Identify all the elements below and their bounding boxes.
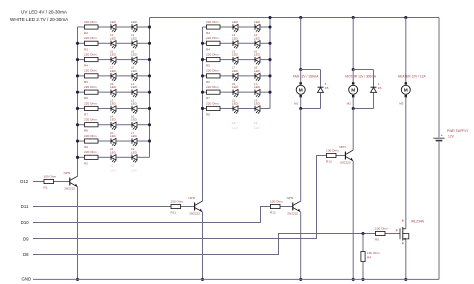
LED L25 <box>232 73 234 78</box>
wire <box>116 140 132 142</box>
node fan bottom <box>299 107 302 110</box>
wire <box>137 42 150 44</box>
svg-text:LED: LED <box>131 134 138 138</box>
svg-text:LED: LED <box>232 53 239 57</box>
svg-text:100 Ohm: 100 Ohm <box>326 148 339 152</box>
svg-text:LED: LED <box>254 126 261 130</box>
wire fan to Q3 collector <box>300 109 302 202</box>
svg-text:LED: LED <box>232 126 239 130</box>
svg-text:GND: GND <box>22 276 32 281</box>
resistor R7 <box>78 107 85 109</box>
wire <box>238 26 255 28</box>
svg-text:LED: LED <box>131 118 138 122</box>
wire MOSFET source to GND <box>405 239 407 280</box>
junction <box>352 278 355 281</box>
LED L5 <box>110 57 112 62</box>
resistor R11 <box>33 206 171 208</box>
resistor R5 <box>78 75 85 77</box>
wire <box>352 70 354 83</box>
svg-text:220 Ohm: 220 Ohm <box>84 20 97 24</box>
svg-text:LED: LED <box>110 69 117 73</box>
junction <box>148 74 151 77</box>
svg-text:LED: LED <box>254 85 261 89</box>
faint labels under block 1 <box>110 164 135 168</box>
svg-text:D12: D12 <box>20 179 28 184</box>
LED L26 <box>254 73 256 78</box>
resistor R1 <box>33 181 44 183</box>
junction <box>76 156 79 159</box>
junction <box>148 58 151 61</box>
wire <box>260 91 270 93</box>
svg-text:LED: LED <box>254 36 261 40</box>
svg-text:2N2222: 2N2222 <box>64 186 75 190</box>
junction <box>76 107 79 110</box>
junction <box>201 74 204 77</box>
svg-text:R2: R2 <box>84 161 88 165</box>
wire D8 to gate <box>33 234 363 255</box>
LED L24 <box>254 57 256 62</box>
LED L1 <box>110 24 112 29</box>
svg-text:LED: LED <box>110 118 117 122</box>
wire GND bus <box>33 278 439 280</box>
resistor R13 <box>203 59 207 61</box>
resistor R13 <box>317 155 327 157</box>
LED L22 <box>254 41 256 46</box>
svg-text:220 Ohm: 220 Ohm <box>84 150 97 154</box>
junction <box>268 74 271 77</box>
junction <box>76 139 79 142</box>
wire <box>116 26 132 28</box>
svg-text:LED: LED <box>110 101 117 105</box>
LED L2 <box>131 24 133 29</box>
resistor R14 <box>203 75 207 77</box>
svg-text:220 Ohm: 220 Ohm <box>84 118 97 122</box>
wire <box>238 59 255 61</box>
svg-text:R13: R13 <box>326 160 332 164</box>
wire <box>260 75 270 77</box>
junction <box>201 278 204 281</box>
junction <box>148 123 151 126</box>
wire <box>116 75 132 77</box>
svg-text:L1: L1 <box>131 164 135 168</box>
junction <box>76 42 79 45</box>
LED L15 <box>110 138 112 143</box>
node motor bottom <box>352 107 355 110</box>
svg-text:M: M <box>299 88 303 94</box>
transistor Q1 2N2222 <box>69 178 71 186</box>
wire Q1 emitter to GND <box>77 187 79 280</box>
LED L27 <box>232 89 234 94</box>
wire <box>116 156 132 158</box>
LED L12 <box>131 106 133 111</box>
wire <box>137 156 150 158</box>
svg-text:R11: R11 <box>171 211 177 215</box>
junction <box>76 278 79 281</box>
wire block2 left column <box>202 27 204 201</box>
wire <box>116 107 132 109</box>
svg-text:L2: L2 <box>232 121 236 125</box>
resistor R5 gate <box>365 233 376 235</box>
svg-text:LED: LED <box>110 20 117 24</box>
resistor R6 <box>78 91 85 93</box>
svg-text:R12: R12 <box>270 211 276 215</box>
wire <box>137 140 150 142</box>
svg-text:220 Ohm: 220 Ohm <box>206 101 219 105</box>
svg-text:NPN: NPN <box>287 196 294 200</box>
svg-text:R8: R8 <box>206 112 210 116</box>
wire <box>238 91 255 93</box>
resistor R11 <box>203 26 207 28</box>
svg-text:M: M <box>351 88 355 94</box>
LED L28 <box>254 89 256 94</box>
LED L19 <box>232 24 234 29</box>
svg-text:LED: LED <box>232 85 239 89</box>
junction <box>201 58 204 61</box>
transistor Q4 2N2222 <box>344 152 346 160</box>
svg-text:NPN: NPN <box>64 171 71 175</box>
wire <box>238 42 255 44</box>
svg-text:R9: R9 <box>84 145 88 149</box>
junction <box>201 91 204 94</box>
svg-text:220 Ohm: 220 Ohm <box>84 52 97 56</box>
junction gate node <box>361 232 364 235</box>
resistor R12 <box>262 206 271 208</box>
svg-text:R7: R7 <box>84 112 88 116</box>
LED L4 <box>131 41 133 46</box>
wire <box>260 42 270 44</box>
svg-text:R4: R4 <box>206 47 210 51</box>
svg-text:R6: R6 <box>84 96 88 100</box>
svg-text:220 Ohm: 220 Ohm <box>206 69 219 73</box>
svg-text:LED: LED <box>254 69 261 73</box>
svg-text:220 Ohm: 220 Ohm <box>84 101 97 105</box>
svg-text:100 Ohm: 100 Ohm <box>44 174 57 178</box>
svg-text:PWR SUPPLY: PWR SUPPLY <box>447 129 469 133</box>
svg-text:LED: LED <box>254 53 261 57</box>
wire D9 <box>33 156 317 239</box>
wire <box>116 91 132 93</box>
wire block2 right column <box>269 18 271 109</box>
junction <box>76 58 79 61</box>
transistor Q2 2N2222 <box>194 203 196 211</box>
resistor R8 <box>78 124 85 126</box>
junction <box>148 139 151 142</box>
svg-text:LED: LED <box>110 150 117 154</box>
LED L18 <box>131 155 133 160</box>
svg-text:12V: 12V <box>448 134 455 138</box>
svg-text:M1: M1 <box>294 101 298 105</box>
resistor R10 <box>78 156 85 158</box>
junction <box>201 42 204 45</box>
svg-text:2N2222: 2N2222 <box>189 211 200 215</box>
wire <box>116 124 132 126</box>
svg-text:LED: LED <box>110 168 117 172</box>
LED L3 <box>110 41 112 46</box>
junction <box>148 91 151 94</box>
svg-text:LED: LED <box>110 85 117 89</box>
svg-text:100 Ohm: 100 Ohm <box>375 226 388 230</box>
wire block1 right column <box>149 18 151 158</box>
junction <box>361 278 364 281</box>
resistor R16 <box>203 107 207 109</box>
LED L17 <box>110 155 112 160</box>
resistor R2 <box>78 26 85 28</box>
wire <box>238 107 255 109</box>
resistor R3 <box>78 42 85 44</box>
wire <box>116 59 132 61</box>
LED L10 <box>131 89 133 94</box>
resistor R12 <box>203 42 207 44</box>
svg-text:HEATER 12V / 12A: HEATER 12V / 12A <box>398 75 426 79</box>
wire right supply column <box>438 18 440 138</box>
wire <box>238 75 255 77</box>
svg-text:LED: LED <box>131 168 138 172</box>
svg-text:220 Ohm: 220 Ohm <box>206 20 219 24</box>
svg-text:LED: LED <box>110 36 117 40</box>
motor HEATER M3 <box>405 82 407 84</box>
junction top bus <box>404 16 407 19</box>
wire <box>137 107 150 109</box>
svg-text:L2: L2 <box>254 121 258 125</box>
svg-text:LED: LED <box>131 36 138 40</box>
junction <box>268 91 271 94</box>
svg-text:LED: LED <box>131 20 138 24</box>
wire <box>137 124 150 126</box>
junction <box>268 42 271 45</box>
junction <box>201 107 204 110</box>
wire Q2 emitter to GND <box>202 212 204 280</box>
LED L9 <box>110 89 112 94</box>
svg-text:2N2222: 2N2222 <box>340 160 351 164</box>
svg-text:R7: R7 <box>206 96 210 100</box>
wire <box>137 75 150 77</box>
svg-text:2N2222: 2N2222 <box>287 211 298 215</box>
svg-text:M2: M2 <box>347 101 351 105</box>
wire heater to MOSFET drain <box>405 97 407 229</box>
svg-text:LED: LED <box>232 101 239 105</box>
svg-text:LED: LED <box>131 69 138 73</box>
wire block1 left column <box>77 27 79 176</box>
wire <box>260 26 270 28</box>
wire +12V top bus <box>150 17 440 19</box>
svg-text:10k Ohm: 10k Ohm <box>367 251 380 255</box>
svg-text:D6: D6 <box>378 86 382 90</box>
wire <box>137 59 150 61</box>
LED L11 <box>110 106 112 111</box>
wire <box>137 26 150 28</box>
resistor R4 10k pulldown <box>362 234 364 252</box>
node motor top <box>352 68 355 71</box>
battery PWR SUPPLY <box>433 137 444 139</box>
svg-text:WHITE LED 2.7V / 20-30mA: WHITE LED 2.7V / 20-30mA <box>10 17 69 22</box>
wire motor to Q4 collector <box>352 109 354 151</box>
LED L7 <box>110 73 112 78</box>
junction <box>76 74 79 77</box>
junction top bus <box>299 16 302 19</box>
svg-text:M3: M3 <box>399 101 403 105</box>
svg-text:220 Ohm: 220 Ohm <box>84 36 97 40</box>
LED L16 <box>131 138 133 143</box>
svg-text:LED: LED <box>232 36 239 40</box>
svg-text:220 Ohm: 220 Ohm <box>84 69 97 73</box>
junction <box>268 25 271 28</box>
svg-text:D5: D5 <box>325 86 329 90</box>
svg-text:LED: LED <box>254 101 261 105</box>
svg-text:M: M <box>404 88 408 94</box>
transistor Q3 2N2222 <box>292 203 294 211</box>
svg-text:R3: R3 <box>206 31 210 35</box>
node fan top <box>299 68 302 71</box>
faint labels under block 2 <box>232 121 258 125</box>
junction top bus <box>352 16 355 19</box>
svg-text:D11: D11 <box>21 204 29 209</box>
wire Q3 emitter to GND <box>300 212 302 279</box>
svg-text:D10: D10 <box>21 220 29 225</box>
LED L23 <box>232 57 234 62</box>
svg-text:L1: L1 <box>110 164 114 168</box>
svg-text:R4: R4 <box>367 256 371 260</box>
svg-text:LED: LED <box>110 53 117 57</box>
svg-text:220 Ohm: 220 Ohm <box>206 85 219 89</box>
svg-text:220 Ohm: 220 Ohm <box>84 85 97 89</box>
svg-text:100 Ohm: 100 Ohm <box>270 199 283 203</box>
junction <box>299 278 302 281</box>
svg-text:R5: R5 <box>375 238 379 242</box>
LED L14 <box>131 122 133 127</box>
junction <box>404 278 407 281</box>
resistor R4 <box>78 59 85 61</box>
svg-text:100 Ohm: 100 Ohm <box>171 199 184 203</box>
svg-text:R5: R5 <box>84 80 88 84</box>
svg-text:MOTOR 12v / 300mA: MOTOR 12v / 300mA <box>345 75 376 79</box>
LED L30 <box>254 106 256 111</box>
junction <box>148 25 151 28</box>
motor FAN M1 <box>300 82 302 84</box>
wire battery minus to GND <box>438 142 440 280</box>
svg-text:R1: R1 <box>44 186 48 190</box>
junction <box>148 42 151 45</box>
wire <box>260 107 270 109</box>
wire motor column <box>352 18 354 70</box>
svg-text:LED: LED <box>131 53 138 57</box>
resistor R15 <box>203 91 207 93</box>
MOSFET Q5 IRLZ34N <box>399 228 401 239</box>
svg-text:R5: R5 <box>206 64 210 68</box>
junction <box>76 91 79 94</box>
svg-text:NPN: NPN <box>188 196 195 200</box>
svg-text:220 Ohm: 220 Ohm <box>206 36 219 40</box>
svg-text:220 Ohm: 220 Ohm <box>84 134 97 138</box>
resistor R9 <box>78 140 85 142</box>
LED L21 <box>232 41 234 46</box>
LED L13 <box>110 122 112 127</box>
junction <box>76 123 79 126</box>
wire <box>260 59 270 61</box>
svg-text:R4: R4 <box>84 64 88 68</box>
diode D5 flyback <box>301 69 321 71</box>
svg-text:LED: LED <box>131 150 138 154</box>
junction top bus <box>268 16 271 19</box>
wire <box>137 91 150 93</box>
svg-text:LED: LED <box>131 101 138 105</box>
svg-text:R8: R8 <box>84 129 88 133</box>
diode D6 flyback <box>353 69 373 71</box>
svg-text:D8: D8 <box>23 252 29 257</box>
svg-text:D9: D9 <box>23 236 29 241</box>
svg-text:NPN: NPN <box>339 145 346 149</box>
wire heater column <box>405 18 407 83</box>
svg-text:LED: LED <box>110 134 117 138</box>
svg-text:R2: R2 <box>84 31 88 35</box>
svg-text:LED: LED <box>254 20 261 24</box>
wire <box>300 70 302 83</box>
svg-text:LED: LED <box>232 69 239 73</box>
LED L6 <box>131 57 133 62</box>
svg-text:R6: R6 <box>206 80 210 84</box>
junction <box>268 58 271 61</box>
wire fan column <box>300 18 302 70</box>
svg-text:R3: R3 <box>84 47 88 51</box>
LED L20 <box>254 24 256 29</box>
junction <box>148 107 151 110</box>
svg-text:UV LED 4V / 20-30mA: UV LED 4V / 20-30mA <box>21 9 68 14</box>
wire <box>116 42 132 44</box>
svg-text:LED: LED <box>131 85 138 89</box>
svg-text:FAN 12V / 180mA: FAN 12V / 180mA <box>293 75 319 79</box>
wire D10 <box>33 207 262 223</box>
LED L29 <box>232 106 234 111</box>
svg-text:220 Ohm: 220 Ohm <box>206 52 219 56</box>
svg-text:LED: LED <box>232 20 239 24</box>
motor M2 <box>352 82 354 84</box>
wire Q4 emitter to GND <box>352 161 354 280</box>
LED L8 <box>131 73 133 78</box>
svg-text:IRLZ34N: IRLZ34N <box>411 220 424 224</box>
